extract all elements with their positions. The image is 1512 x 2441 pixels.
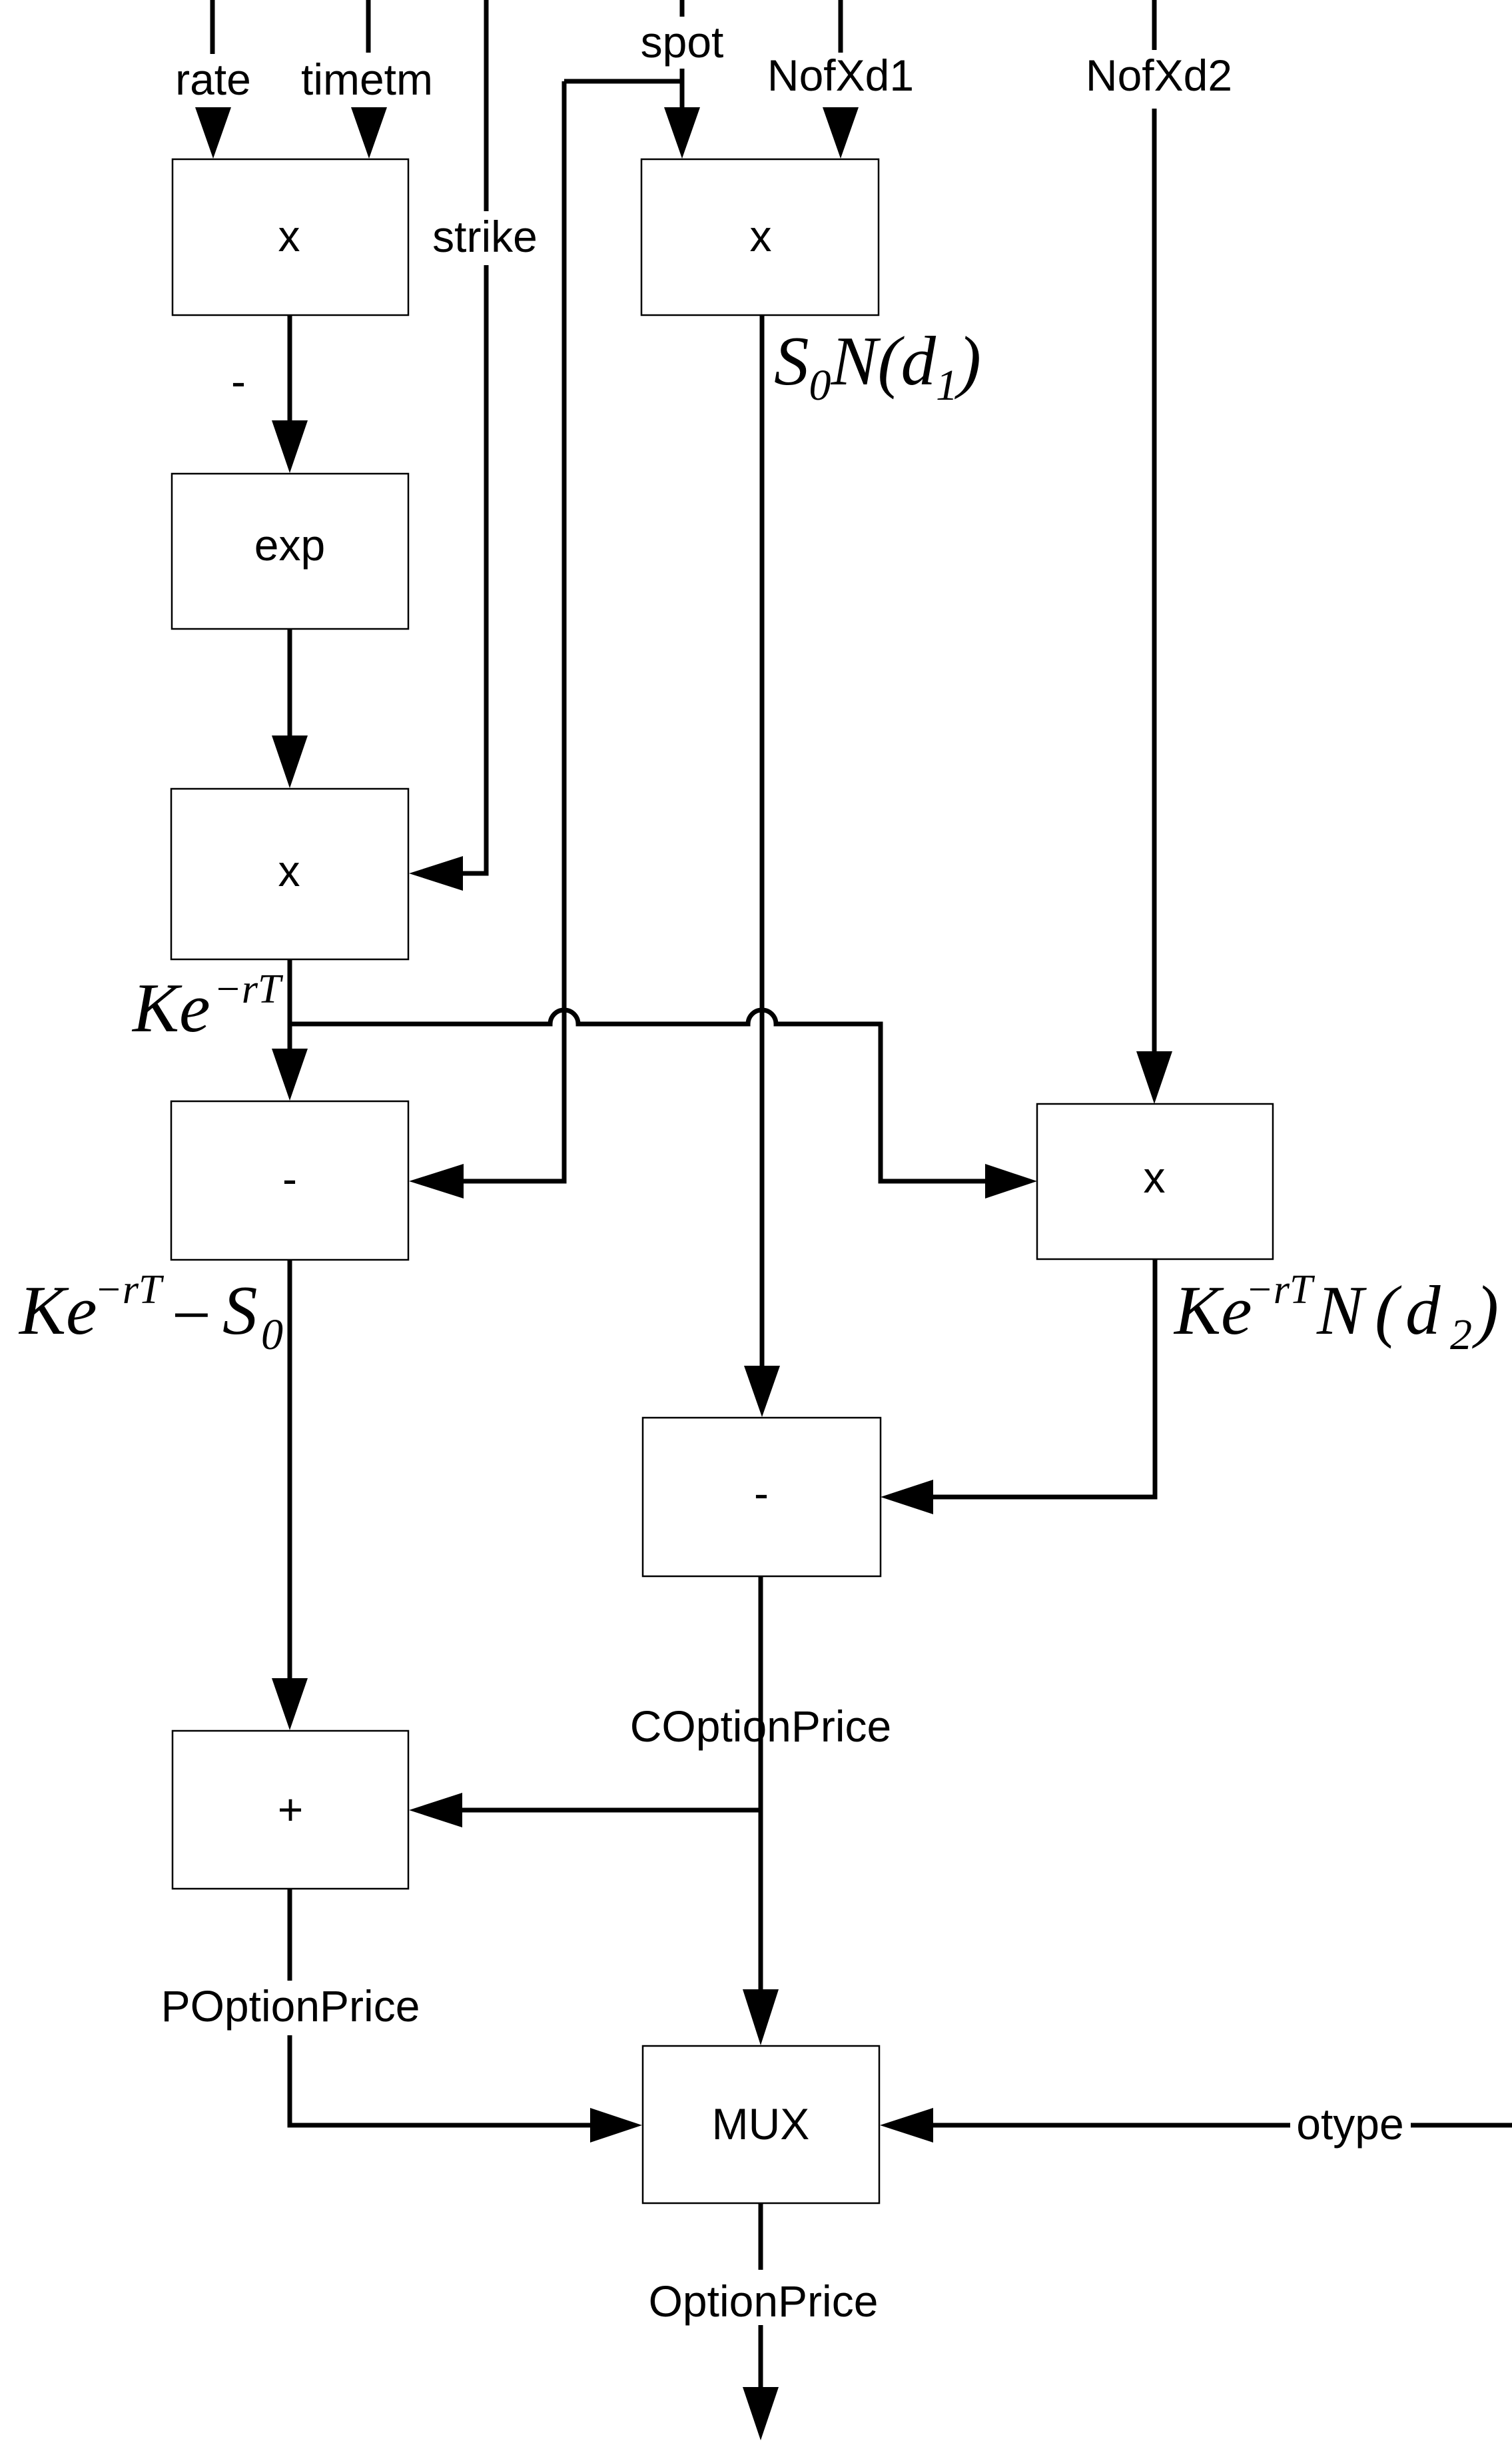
- wire NofXd2 arrowhead into multiplier U5: [1136, 1051, 1172, 1104]
- svg-text:−rT: −rT: [95, 1267, 165, 1312]
- wire U7 output COptionPrice down to MUX: [759, 1576, 763, 1989]
- exp U6 box: [172, 474, 408, 629]
- svg-text:−rT: −rT: [1246, 1267, 1316, 1312]
- wire U2 output S0N(d1) down to subtractor U7: [760, 315, 765, 1366]
- svg-text:NofXd2: NofXd2: [1086, 51, 1232, 100]
- label spot with white background: [638, 17, 727, 69]
- wire strike arrowhead into multiplier U3 right edge: [409, 856, 463, 891]
- svg-text:Ke: Ke: [1173, 1271, 1252, 1349]
- wire arrowhead into subtractor U7 top: [744, 1366, 780, 1417]
- svg-text:exp: exp: [254, 520, 325, 570]
- svg-text:rate: rate: [175, 55, 251, 104]
- wire NofXd1 input stub: [839, 0, 843, 53]
- subtractor U4 box: [171, 1101, 408, 1260]
- wire spot input stub and branch to multiplier U2: [564, 0, 682, 109]
- multiplier U5 box: [1037, 1104, 1273, 1259]
- subtractor U7 box: [643, 1418, 881, 1576]
- svg-text:−: −: [167, 1276, 214, 1354]
- wire arrowhead into adder U8 top: [272, 1678, 308, 1730]
- svg-text:-: -: [282, 1154, 297, 1203]
- svg-text:-: -: [754, 1468, 769, 1518]
- wire rate input stub: [210, 0, 215, 54]
- svg-text:(: (: [1375, 1271, 1402, 1349]
- wire MUX output OptionPrice: [759, 2203, 763, 2387]
- wire timetm arrowhead into multiplier U1: [351, 107, 387, 159]
- wire arrowhead into exp U6: [272, 420, 308, 473]
- wire otype input from right: [933, 2123, 1512, 2128]
- wire otype arrowhead into MUX right edge: [880, 2108, 933, 2143]
- svg-text:NofXd1: NofXd1: [767, 51, 914, 100]
- wire NofXd2 input line: [1152, 0, 1157, 1051]
- svg-text:x: x: [278, 846, 300, 895]
- wire rate arrowhead into multiplier U1: [195, 107, 231, 159]
- svg-text:otype: otype: [1296, 2099, 1403, 2149]
- wire spot arrowhead into multiplier U2: [664, 107, 700, 159]
- wire COptionPrice branch to adder U8: [462, 1808, 761, 1813]
- wire strike vertical line with bend into multiplier U3: [463, 0, 486, 873]
- wire spot arrowhead into subtractor U4 right edge: [409, 1164, 464, 1199]
- wire arrowhead into subtractor U7 right edge: [881, 1480, 933, 1514]
- svg-text:d: d: [1405, 1271, 1441, 1349]
- wire exp U6 output down: [288, 629, 292, 735]
- wire arrowhead into subtractor U4 top: [272, 1049, 308, 1101]
- wire arrowhead into adder U8 right edge: [409, 1793, 462, 1827]
- wire U4 output Ke-rT minus S0 down to adder U8: [288, 1260, 292, 1678]
- svg-text:x: x: [278, 211, 300, 260]
- svg-text:): ): [1472, 1271, 1499, 1349]
- svg-text:−rT: −rT: [214, 967, 284, 1012]
- multiplier U2 box: [641, 159, 879, 315]
- wire OptionPrice output arrowhead: [743, 2387, 779, 2440]
- label otype with white background: [1290, 2099, 1411, 2151]
- svg-text:0: 0: [261, 1310, 283, 1359]
- adder U8 box: [173, 1731, 408, 1889]
- svg-text:-: -: [231, 356, 246, 406]
- wire arrowhead into MUX top: [743, 1989, 779, 2045]
- svg-text:Ke: Ke: [131, 969, 210, 1047]
- svg-text:N: N: [1316, 1271, 1367, 1349]
- svg-text:timetm: timetm: [301, 55, 433, 104]
- svg-text:S: S: [222, 1271, 258, 1349]
- wire arrowhead into multiplier U3: [272, 735, 308, 788]
- svg-text:x: x: [750, 211, 772, 260]
- MUX U9 box: [643, 2046, 879, 2203]
- svg-text:2: 2: [1450, 1310, 1472, 1359]
- svg-text:spot: spot: [641, 17, 724, 67]
- svg-text:POptionPrice: POptionPrice: [161, 1981, 420, 2031]
- svg-text:x: x: [1144, 1153, 1166, 1202]
- wire spot left branch down to subtractor U4: [464, 81, 564, 1181]
- svg-text:strike: strike: [432, 212, 538, 261]
- wire arrowhead into MUX left edge: [590, 2108, 642, 2143]
- label strike with white background: [432, 211, 540, 265]
- wire U5 output Ke-rT N(d2) to subtractor U7: [933, 1259, 1155, 1497]
- wire NofXd1 arrowhead into multiplier U2: [823, 107, 859, 159]
- svg-text:+: +: [278, 1785, 304, 1834]
- svg-text:Ke: Ke: [18, 1271, 97, 1349]
- multiplier U1 box: [173, 159, 408, 315]
- wire arrowhead into multiplier U5 left edge: [985, 1164, 1037, 1199]
- wire U8 output POptionPrice to MUX left: [290, 1889, 590, 2125]
- wire timetm input stub: [366, 0, 371, 53]
- wire Ke-rT branch with hops to multiplier U5: [290, 1010, 985, 1181]
- label NofXd2 with white background: [1082, 50, 1236, 109]
- wire U1 output to exp with minus sign: [288, 315, 292, 420]
- svg-text:OptionPrice: OptionPrice: [649, 2276, 879, 2326]
- svg-text:MUX: MUX: [712, 2099, 810, 2149]
- multiplier U3 box: [171, 789, 408, 959]
- node OptionPrice label with white background: [646, 2270, 881, 2325]
- node POptionPrice label with white background: [156, 1981, 426, 2035]
- wire U3 output down to subtractor U4: [288, 959, 292, 1049]
